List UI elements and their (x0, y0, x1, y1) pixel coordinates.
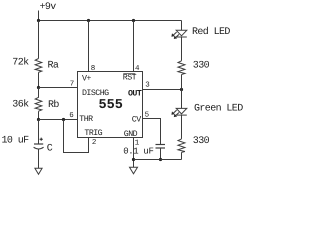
pin name RST (123, 74, 137, 83)
pin 2 label (92, 138, 97, 147)
svg-text:Green LED: Green LED (194, 104, 243, 115)
LED red triangle (176, 30, 187, 36)
pin name OUT (128, 89, 142, 98)
wire pin 4 drop (133, 21, 135, 72)
capacitor 0.1uF bottom plate (156, 147, 166, 149)
LED green triangle (176, 108, 187, 114)
capacitor 0.1uF top plate (156, 144, 166, 146)
value 0.1 uF (123, 147, 153, 157)
pin 3 label (145, 81, 150, 90)
svg-text:Red LED: Red LED (192, 26, 230, 38)
value 72k (12, 56, 29, 68)
pin name THR (79, 115, 93, 124)
node junction trig tap (62, 118, 65, 121)
wire 330 to out node (181, 75, 183, 109)
pin name CV (132, 115, 141, 124)
wire threshold (pin 6) (39, 119, 78, 121)
value 10 uF (2, 135, 30, 146)
svg-text:10 uF: 10 uF (2, 135, 30, 146)
wire green LED to 330 (181, 115, 183, 139)
wire ground rail (134, 159, 182, 161)
node junction cap-gnd (159, 158, 162, 161)
value 330 bottom (193, 136, 210, 147)
pin 1 label (135, 140, 140, 148)
label C (47, 144, 53, 155)
svg-text:555: 555 (99, 98, 123, 113)
wire red LED to 330 (181, 37, 183, 61)
wire 0.1uF to rail (160, 148, 162, 160)
value 36k (12, 98, 29, 110)
svg-text:+9v: +9v (40, 2, 57, 13)
svg-text:0.1 uF: 0.1 uF (123, 147, 153, 157)
capacitor C curved plate (34, 147, 44, 149)
svg-text:72k: 72k (12, 56, 29, 68)
svg-text:CV: CV (132, 115, 141, 124)
value 330 top (193, 60, 210, 71)
wire +9v drop (38, 11, 40, 21)
wire Ra to node (38, 72, 40, 87)
svg-text:THR: THR (79, 115, 93, 124)
ground left (35, 168, 42, 174)
LED green arrow 1 (173, 110, 177, 113)
pin name DISCHG (82, 89, 109, 98)
wire capacitor to ground (38, 149, 40, 168)
svg-text:7: 7 (70, 80, 75, 88)
label Rb (48, 99, 59, 111)
pin name GND (124, 130, 138, 139)
IC U1 555 timer body (78, 72, 143, 138)
pin 7 label (70, 80, 75, 88)
wire cv (pin 5) (143, 119, 161, 145)
capacitor C top plate (34, 143, 43, 145)
wire pin 1 gnd drop (133, 138, 135, 168)
svg-text:4: 4 (135, 65, 140, 73)
pin 6 label (69, 111, 74, 120)
LED red arrow 2 (175, 34, 179, 37)
pin name V+ (82, 75, 91, 84)
pin 8 label (91, 64, 96, 73)
pin 4 label (135, 65, 140, 73)
pin 5 label (145, 111, 150, 119)
svg-text:V+: V+ (82, 75, 91, 84)
svg-text:OUT: OUT (128, 89, 142, 98)
wire pin 8 drop (88, 21, 90, 72)
wire node to capacitor C (38, 120, 40, 144)
node junction gnd (132, 158, 135, 161)
wire 330 bottom to ground rail (181, 152, 183, 159)
svg-text:330: 330 (193, 136, 210, 147)
wire top rail (39, 20, 182, 22)
label Green LED (194, 104, 243, 115)
node junction pin4 (132, 19, 135, 22)
pin name RST overline (123, 72, 135, 74)
label 555 (99, 98, 123, 113)
node junction discharge (37, 86, 40, 89)
svg-text:DISCHG: DISCHG (82, 89, 109, 98)
LED red cathode bar (177, 36, 187, 38)
svg-text:36k: 36k (12, 98, 29, 110)
node +9v label (40, 2, 57, 13)
capacitor C plus sign (40, 138, 43, 141)
svg-text:2: 2 (92, 138, 97, 147)
svg-text:C: C (47, 144, 53, 155)
svg-text:GND: GND (124, 130, 138, 139)
wire top of Ra (38, 21, 40, 59)
node junction pin8 (87, 19, 90, 22)
LED green arrow 2 (175, 113, 179, 116)
svg-text:Ra: Ra (48, 61, 59, 72)
svg-text:Rb: Rb (48, 99, 59, 111)
svg-text:RST: RST (123, 74, 137, 83)
wire discharge (pin 7) (39, 87, 78, 89)
LED red arrow 1 (173, 32, 177, 35)
pin name TRIG (84, 129, 102, 138)
resistor Ra (35, 59, 42, 73)
svg-text:8: 8 (91, 64, 96, 73)
node junction threshold (37, 118, 40, 121)
ground center (130, 167, 138, 174)
LED green cathode bar (177, 114, 187, 116)
svg-text:TRIG: TRIG (84, 129, 102, 138)
svg-text:330: 330 (193, 60, 210, 71)
resistor Rb (35, 88, 42, 112)
wire trig loop (64, 120, 89, 153)
wire Rb to node (38, 111, 40, 119)
label Red LED (192, 26, 230, 38)
svg-text:3: 3 (145, 81, 150, 90)
node junction top-left (37, 19, 40, 22)
svg-text:6: 6 (69, 111, 74, 120)
label Ra (48, 61, 59, 72)
resistor 330 bottom (178, 139, 185, 153)
wire out (pin 3) (143, 89, 182, 91)
resistor 330 top (178, 61, 185, 75)
node junction out (180, 88, 183, 91)
wire right rail to red LED (181, 21, 183, 31)
